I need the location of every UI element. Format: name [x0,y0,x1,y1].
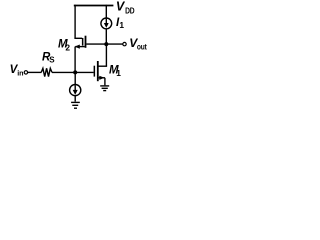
svg-text:2: 2 [65,42,70,52]
svg-text:1: 1 [119,20,124,30]
svg-text:S: S [49,55,55,64]
svg-text:1: 1 [116,68,121,78]
svg-text:out: out [137,42,147,52]
svg-text:in: in [17,69,23,78]
svg-text:DD: DD [125,6,135,16]
